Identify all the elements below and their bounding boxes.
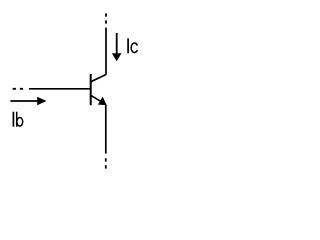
collector lead diagonal	[91, 75, 106, 82]
wire emitter	[105, 104, 107, 153]
emitter lead diagonal	[91, 95, 102, 102]
label Ib	[13, 112, 22, 127]
base bar	[90, 74, 92, 105]
wire base	[29, 88, 91, 90]
wire base dashed continuation	[13, 88, 24, 90]
wire emitter dashed continuation	[105, 158, 107, 169]
label Ic	[128, 38, 137, 53]
wire collector	[105, 28, 107, 75]
emitter arrowhead	[99, 98, 106, 105]
current arrow Ib	[10, 97, 46, 105]
wire collector dashed continuation	[105, 13, 107, 24]
transistor Q1	[91, 74, 106, 105]
current arrow Ic	[112, 33, 122, 61]
